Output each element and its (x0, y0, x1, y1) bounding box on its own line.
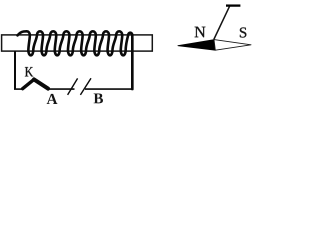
compass needle right half (white outline) (214, 40, 251, 51)
label A (47, 94, 58, 104)
wire bottom right segment (85, 88, 133, 90)
wire right vertical reinforcement (131, 38, 133, 90)
pivot support line (214, 6, 230, 39)
wire bottom middle segment (47, 88, 75, 90)
compass needle left half (black) (178, 40, 215, 51)
label K (25, 67, 33, 76)
switch K blade right stroke (34, 79, 48, 88)
label N (195, 27, 206, 37)
label B (94, 93, 103, 103)
pivot support top bar (226, 4, 240, 6)
wire left vertical (14, 51, 16, 89)
break slash 1 (68, 78, 78, 95)
switch K blade left stroke (23, 79, 34, 88)
wire bottom left segment (14, 88, 23, 90)
break slash 2 (80, 78, 91, 95)
label S (240, 27, 246, 37)
coil winding (18, 31, 133, 89)
iron core bar (2, 35, 153, 51)
